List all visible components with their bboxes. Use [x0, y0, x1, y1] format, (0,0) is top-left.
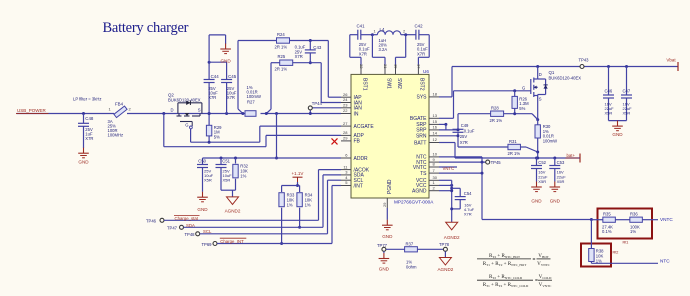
svg-text:0.1uF: 0.1uF — [464, 128, 475, 133]
svg-text:D: D — [171, 108, 174, 113]
svg-text:5%: 5% — [214, 134, 220, 139]
svg-text:Rt1: Rt1 — [623, 240, 629, 244]
svg-text:USB_POWER: USB_POWER — [17, 108, 47, 113]
svg-text:X5R: X5R — [223, 178, 231, 183]
svg-text:X7R: X7R — [464, 212, 472, 217]
svg-text:+1.1V: +1.1V — [292, 171, 304, 176]
svg-text:1%: 1% — [240, 174, 246, 179]
svg-text:C44: C44 — [211, 74, 220, 79]
svg-text:LP filter = 3kHz: LP filter = 3kHz — [73, 97, 101, 102]
svg-text:BGATE: BGATE — [410, 116, 427, 122]
svg-text:bat+: bat+ — [567, 153, 576, 158]
svg-text:SCL: SCL — [203, 229, 212, 234]
svg-text:=: = — [533, 257, 536, 263]
svg-text:AGND2: AGND2 — [225, 209, 241, 214]
svg-text:3.2A: 3.2A — [379, 47, 388, 52]
svg-text:TP69: TP69 — [202, 242, 213, 247]
svg-text:SDA: SDA — [186, 223, 195, 228]
svg-text:R36: R36 — [630, 212, 638, 217]
svg-text:22: 22 — [359, 64, 364, 69]
svg-text:19: 19 — [394, 64, 399, 69]
svg-text:VCOLD: VCOLD — [539, 274, 552, 280]
svg-text:RT2 + RNTC_COLD: RT2 + RNTC_COLD — [489, 274, 523, 280]
svg-text:2R 1%: 2R 1% — [508, 151, 521, 156]
svg-text:25V: 25V — [460, 134, 468, 139]
svg-text:VVNTC: VVNTC — [537, 261, 550, 267]
svg-text:C51: C51 — [222, 158, 230, 163]
svg-text:R27: R27 — [247, 100, 255, 105]
svg-text:G: G — [522, 85, 525, 90]
svg-text:Q1: Q1 — [549, 70, 555, 75]
svg-text:BATT: BATT — [414, 140, 426, 146]
svg-text:2R 1%: 2R 1% — [275, 67, 288, 72]
svg-text:29: 29 — [382, 202, 387, 207]
svg-text:SW1: SW1 — [385, 78, 391, 89]
svg-text:S: S — [198, 108, 201, 113]
svg-text:TP48: TP48 — [185, 232, 196, 237]
svg-text:1%: 1% — [596, 259, 602, 264]
svg-text:TP47: TP47 — [167, 226, 178, 231]
svg-text:C41: C41 — [357, 24, 366, 29]
svg-text:GND: GND — [197, 207, 208, 212]
svg-text:X7R: X7R — [295, 54, 303, 59]
svg-text:TS: TS — [420, 171, 427, 177]
svg-text:VHOT: VHOT — [538, 253, 548, 259]
svg-text:2R 1%: 2R 1% — [275, 45, 288, 50]
svg-text:1%: 1% — [305, 203, 311, 208]
svg-text:R35: R35 — [603, 212, 611, 217]
svg-text:VNTC: VNTC — [660, 217, 673, 222]
svg-text:28: 28 — [343, 130, 348, 135]
svg-text:TP43: TP43 — [579, 57, 590, 62]
svg-text:VNTC: VNTC — [443, 166, 455, 171]
svg-text:AGND2: AGND2 — [444, 235, 460, 240]
svg-text:=: = — [535, 278, 538, 284]
svg-text:TP45: TP45 — [491, 160, 502, 165]
svg-text:14: 14 — [433, 131, 438, 136]
svg-text:X5R: X5R — [605, 111, 613, 116]
svg-text:AGND2: AGND2 — [437, 267, 453, 272]
svg-text:Charge_INT: Charge_INT — [220, 239, 244, 244]
svg-text:SW2: SW2 — [396, 78, 402, 89]
svg-text:X5R: X5R — [623, 111, 631, 116]
svg-text:IN: IN — [354, 111, 359, 117]
svg-text:R25: R25 — [278, 54, 286, 59]
svg-text:ACGATE: ACGATE — [354, 124, 375, 130]
svg-text:100mW: 100mW — [247, 94, 261, 99]
svg-text:17: 17 — [416, 64, 421, 69]
svg-text:0ohm: 0ohm — [406, 264, 417, 269]
svg-text:5%: 5% — [519, 106, 525, 111]
svg-text:C47: C47 — [623, 89, 631, 94]
svg-text:C54: C54 — [464, 191, 472, 196]
svg-text:RT2 + RNTC_HOT: RT2 + RNTC_HOT — [489, 253, 520, 259]
svg-text:TP46: TP46 — [146, 219, 157, 224]
svg-text:24: 24 — [343, 97, 348, 102]
svg-text:RT1 + RT2 + RNTC_COLD: RT1 + RT2 + RNTC_COLD — [483, 282, 529, 288]
svg-text:BST1: BST1 — [361, 78, 367, 91]
svg-text:D: D — [539, 72, 542, 77]
svg-text:GND: GND — [550, 198, 561, 203]
svg-text:TP77: TP77 — [377, 243, 388, 248]
svg-text:C50: C50 — [198, 158, 206, 163]
svg-text:27: 27 — [343, 121, 348, 126]
svg-text:Battery charger: Battery charger — [103, 20, 189, 36]
svg-text:18: 18 — [433, 92, 438, 97]
svg-text:R28: R28 — [491, 106, 499, 111]
svg-text:X5R: X5R — [538, 179, 546, 184]
svg-text:ADDR: ADDR — [354, 156, 369, 162]
svg-text:GND: GND — [382, 234, 393, 239]
svg-text:X7R: X7R — [85, 136, 93, 141]
svg-text:U6: U6 — [423, 69, 429, 74]
svg-text:12: 12 — [433, 137, 438, 142]
svg-text:BUK6D120-40EX: BUK6D120-40EX — [168, 98, 201, 103]
svg-text:S: S — [539, 97, 542, 102]
svg-text:C46: C46 — [605, 89, 613, 94]
svg-text:GND: GND — [220, 58, 231, 63]
svg-text:PGND: PGND — [387, 179, 393, 194]
svg-text:GND: GND — [379, 266, 390, 271]
svg-text:C53: C53 — [557, 160, 565, 165]
svg-text:21: 21 — [383, 64, 388, 69]
svg-text:RT1 + RT2 + RNTC_HOT: RT1 + RT2 + RNTC_HOT — [483, 261, 526, 267]
svg-text:C48: C48 — [85, 116, 94, 121]
svg-text:26: 26 — [343, 92, 348, 97]
svg-text:TP44: TP44 — [312, 101, 323, 106]
svg-text:BST2: BST2 — [419, 78, 425, 91]
svg-text:1%: 1% — [630, 229, 636, 234]
svg-text:AGND: AGND — [412, 189, 427, 195]
svg-text:X7R: X7R — [359, 51, 367, 56]
svg-text:VVNTC: VVNTC — [539, 282, 552, 288]
svg-text:C52: C52 — [538, 160, 546, 165]
svg-text:X7R: X7R — [227, 95, 235, 100]
svg-text:R24: R24 — [277, 32, 285, 37]
svg-text:C45: C45 — [228, 74, 237, 79]
svg-text:FB: FB — [354, 139, 361, 145]
svg-text:C43: C43 — [313, 45, 322, 50]
svg-text:23: 23 — [343, 103, 348, 108]
svg-text:VNTC: VNTC — [413, 165, 427, 171]
svg-text:GND: GND — [612, 132, 623, 137]
svg-text:100mW: 100mW — [543, 138, 557, 143]
svg-text:2R 1%: 2R 1% — [490, 118, 503, 123]
svg-text:FB4: FB4 — [115, 101, 124, 106]
svg-text:X7R: X7R — [208, 95, 216, 100]
svg-text:Rt2: Rt2 — [613, 250, 619, 254]
svg-text:TP78: TP78 — [439, 242, 450, 247]
svg-text:R37: R37 — [406, 241, 414, 246]
svg-text:100MHz: 100MHz — [108, 133, 124, 138]
svg-text:GND: GND — [531, 198, 542, 203]
svg-text:X5R: X5R — [204, 178, 212, 183]
svg-text:SYS: SYS — [416, 95, 427, 101]
svg-text:SRN: SRN — [416, 134, 427, 140]
svg-text:X5R: X5R — [557, 179, 565, 184]
svg-text:13: 13 — [433, 113, 438, 118]
svg-text:X7R: X7R — [460, 140, 468, 145]
svg-text:G: G — [185, 123, 188, 128]
svg-text:NTC: NTC — [660, 258, 670, 263]
svg-text:Charge_stat: Charge_stat — [175, 216, 199, 221]
svg-text:GND: GND — [78, 159, 89, 164]
svg-text:1%: 1% — [287, 203, 293, 208]
svg-text:L4: L4 — [380, 27, 385, 32]
svg-text:0.1%: 0.1% — [602, 229, 612, 234]
svg-text:16: 16 — [433, 125, 438, 130]
svg-text:BUK6D120-40EX: BUK6D120-40EX — [549, 75, 582, 80]
svg-text:Vbat: Vbat — [666, 57, 676, 62]
svg-text:/INT: /INT — [354, 183, 363, 189]
svg-text:C42: C42 — [415, 24, 424, 29]
svg-text:29: 29 — [343, 136, 348, 141]
svg-text:X7R: X7R — [417, 51, 425, 56]
svg-text:MP2766GVT-000A: MP2766GVT-000A — [394, 200, 434, 205]
svg-text:R31: R31 — [509, 139, 517, 144]
svg-text:15: 15 — [433, 119, 438, 124]
svg-text:22: 22 — [343, 108, 348, 113]
